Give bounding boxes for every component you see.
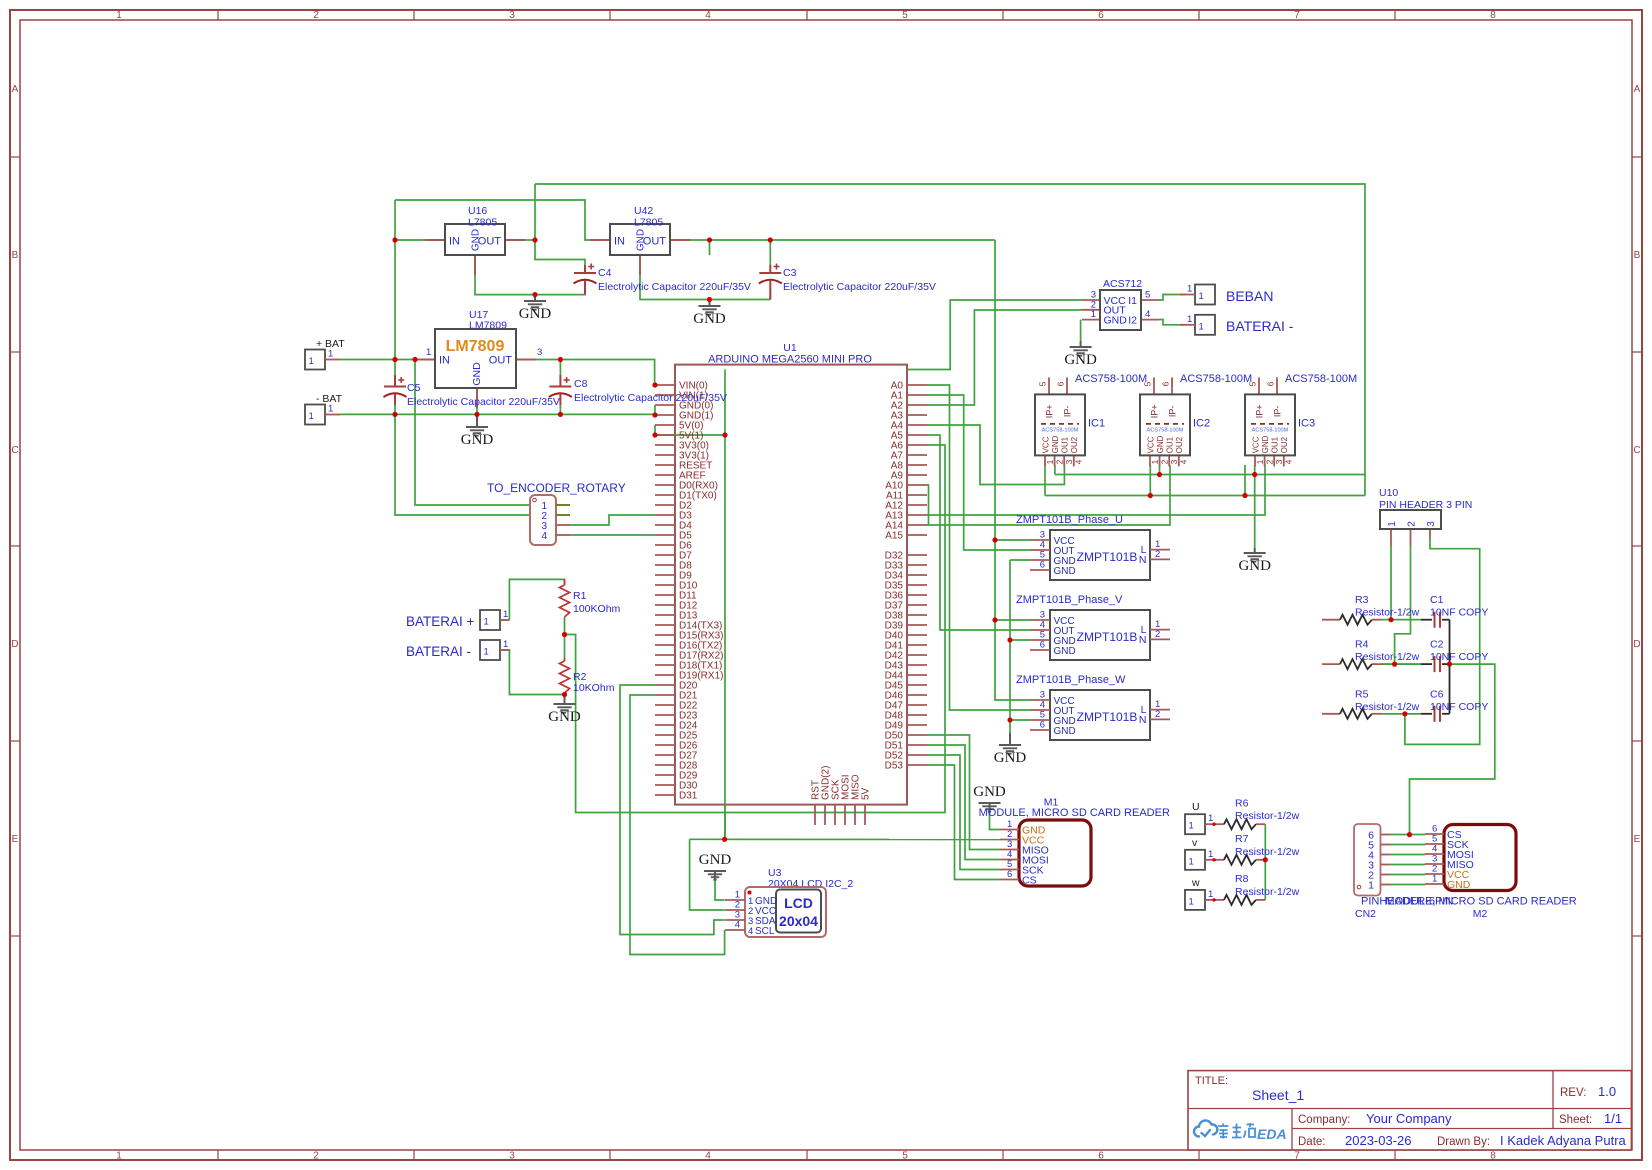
svg-text:3: 3 [1169, 459, 1179, 464]
svg-text:5V: 5V [861, 787, 872, 800]
svg-text:GND: GND [973, 784, 1006, 800]
svg-text:1: 1 [328, 404, 333, 415]
svg-text:4: 4 [705, 1151, 711, 1162]
svg-text:1: 1 [1387, 521, 1398, 527]
svg-text:C: C [1633, 445, 1640, 456]
svg-text:3: 3 [537, 347, 542, 358]
svg-text:GND: GND [1447, 879, 1471, 891]
svg-text:L7805: L7805 [634, 217, 663, 229]
svg-text:CS: CS [1022, 874, 1037, 886]
svg-text:6: 6 [1040, 640, 1045, 651]
svg-text:1: 1 [1189, 821, 1194, 832]
svg-text:5: 5 [902, 10, 908, 21]
svg-text:BATERAI -: BATERAI - [406, 644, 471, 659]
svg-text:ZMPT101B_Phase_V: ZMPT101B_Phase_V [1016, 594, 1123, 606]
svg-text:OU2: OU2 [1280, 436, 1289, 453]
svg-text:1: 1 [116, 1151, 122, 1162]
svg-text:IP-: IP- [1273, 406, 1283, 418]
svg-text:ACS758-100M: ACS758-100M [1075, 373, 1147, 385]
svg-text:TITLE:: TITLE: [1195, 1075, 1228, 1087]
svg-text:ACS758-100M: ACS758-100M [1285, 373, 1357, 385]
svg-text:D: D [1633, 639, 1640, 650]
svg-text:GND: GND [1064, 352, 1097, 368]
svg-text:GND: GND [699, 852, 732, 868]
svg-text:5: 5 [1248, 381, 1258, 386]
svg-text:LM7809: LM7809 [469, 320, 507, 332]
svg-text:1: 1 [1045, 459, 1055, 464]
svg-text:ZMPT101B: ZMPT101B [1077, 550, 1138, 564]
svg-text:GND: GND [548, 709, 581, 725]
svg-text:IN: IN [449, 236, 460, 248]
svg-text:GND: GND [1261, 435, 1270, 453]
svg-text:R3: R3 [1355, 594, 1369, 606]
svg-text:U10: U10 [1379, 487, 1398, 499]
svg-text:Date:: Date: [1298, 1136, 1326, 1148]
svg-text:10NF COPY: 10NF COPY [1430, 607, 1488, 619]
svg-text:2: 2 [1155, 629, 1160, 640]
svg-text:I1: I1 [1128, 295, 1137, 307]
svg-text:1: 1 [484, 617, 489, 628]
svg-text:1: 1 [328, 349, 333, 360]
svg-text:IP-: IP- [1063, 406, 1073, 418]
svg-text:6: 6 [1098, 1151, 1104, 1162]
svg-text:GND: GND [471, 229, 482, 251]
svg-text:1: 1 [1208, 849, 1213, 860]
svg-text:Electrolytic Capacitor 220uF/3: Electrolytic Capacitor 220uF/35V [574, 392, 727, 404]
svg-text:Resistor-1/2w: Resistor-1/2w [1355, 701, 1420, 713]
svg-text:ACS758-100M: ACS758-100M [1042, 427, 1079, 433]
svg-text:Resistor-1/2w: Resistor-1/2w [1235, 846, 1300, 858]
svg-text:TO_ENCODER_ROTARY: TO_ENCODER_ROTARY [487, 481, 626, 495]
svg-text:R8: R8 [1235, 873, 1249, 885]
svg-text:5: 5 [1145, 290, 1150, 301]
svg-text:6: 6 [1040, 720, 1045, 731]
svg-text:GND: GND [1238, 558, 1271, 574]
svg-text:IC2: IC2 [1193, 417, 1210, 429]
svg-text:R1: R1 [573, 590, 587, 602]
svg-text:10NF COPY: 10NF COPY [1430, 651, 1488, 663]
svg-text:6: 6 [1007, 869, 1012, 880]
svg-text:GND: GND [994, 750, 1027, 766]
svg-text:D31: D31 [679, 791, 698, 802]
svg-text:E: E [1634, 834, 1641, 845]
svg-text:4: 4 [541, 531, 547, 542]
svg-text:Resistor-1/2w: Resistor-1/2w [1355, 651, 1420, 663]
svg-text:2: 2 [1155, 549, 1160, 560]
svg-text:Resistor-1/2w: Resistor-1/2w [1235, 886, 1300, 898]
svg-text:1: 1 [1091, 309, 1096, 320]
svg-text:B: B [12, 250, 19, 261]
svg-text:1: 1 [1150, 459, 1160, 464]
svg-text:VCC: VCC [1146, 436, 1155, 453]
svg-text:3: 3 [509, 10, 515, 21]
svg-text:R4: R4 [1355, 639, 1369, 651]
svg-text:6: 6 [1161, 381, 1171, 386]
svg-text:10KOhm: 10KOhm [573, 682, 615, 694]
svg-text:GND: GND [1054, 566, 1076, 577]
svg-text:1: 1 [1208, 889, 1213, 900]
svg-text:Electrolytic Capacitor 220uF/3: Electrolytic Capacitor 220uF/35V [783, 281, 936, 293]
svg-text:GND: GND [1051, 435, 1060, 453]
svg-text:OU1: OU1 [1271, 436, 1280, 453]
svg-text:1: 1 [1187, 314, 1192, 325]
svg-text:A: A [1634, 84, 1641, 95]
svg-text:REV:: REV: [1560, 1087, 1586, 1099]
svg-text:4: 4 [1284, 459, 1294, 464]
svg-text:1: 1 [1189, 856, 1194, 867]
svg-text:1: 1 [1187, 284, 1192, 295]
svg-text:GND: GND [1054, 646, 1076, 657]
svg-text:OU2: OU2 [1070, 436, 1079, 453]
svg-text:CN2: CN2 [1355, 908, 1376, 920]
svg-text:N: N [1139, 714, 1147, 726]
svg-text:GND: GND [1054, 726, 1076, 737]
svg-text:GND: GND [1104, 314, 1128, 326]
svg-text:1: 1 [309, 411, 314, 422]
svg-text:IP+: IP+ [1045, 405, 1055, 419]
svg-text:N: N [1139, 554, 1147, 566]
svg-text:w: w [1191, 877, 1200, 889]
svg-text:U1: U1 [783, 342, 797, 354]
svg-text:6: 6 [1098, 10, 1104, 21]
svg-text:6: 6 [1266, 381, 1276, 386]
svg-text:N: N [1139, 634, 1147, 646]
svg-text:U42: U42 [634, 205, 653, 217]
svg-text:LM7809: LM7809 [446, 338, 505, 355]
svg-text:B: B [1634, 250, 1641, 261]
svg-text:C1: C1 [1430, 594, 1444, 606]
svg-text:1: 1 [1432, 874, 1437, 885]
svg-text:Resistor-1/2w: Resistor-1/2w [1355, 607, 1420, 619]
svg-text:Resistor-1/2w: Resistor-1/2w [1235, 810, 1300, 822]
svg-text:OUT: OUT [489, 355, 513, 367]
svg-text:MODULE, MICRO SD CARD READER: MODULE, MICRO SD CARD READER [979, 807, 1170, 819]
svg-text:1: 1 [1199, 321, 1204, 332]
svg-text:8: 8 [1490, 10, 1496, 21]
svg-text:2: 2 [1054, 459, 1064, 464]
svg-text:1: 1 [484, 647, 489, 658]
svg-text:E: E [12, 834, 19, 845]
svg-text:PINHEADER-6PIN: PINHEADER-6PIN [1361, 896, 1453, 908]
svg-text:5: 5 [902, 1151, 908, 1162]
svg-text:OU1: OU1 [1061, 436, 1070, 453]
svg-text:2: 2 [313, 10, 319, 21]
svg-text:OU2: OU2 [1175, 436, 1184, 453]
svg-text:3: 3 [1426, 521, 1437, 527]
svg-text:+ BAT: + BAT [316, 338, 345, 350]
svg-text:7: 7 [1294, 10, 1300, 21]
svg-text:8: 8 [1490, 1151, 1496, 1162]
svg-text:LCD: LCD [784, 895, 813, 911]
svg-text:VCC: VCC [1041, 436, 1050, 453]
svg-text:IN: IN [614, 236, 625, 248]
svg-text:1: 1 [1255, 459, 1265, 464]
svg-text:VCC: VCC [1251, 436, 1260, 453]
svg-text:1.0: 1.0 [1598, 1084, 1616, 1099]
svg-text:GND: GND [1156, 435, 1165, 453]
svg-text:GND: GND [636, 229, 647, 251]
svg-text:1: 1 [1208, 813, 1213, 824]
svg-text:4: 4 [705, 10, 711, 21]
svg-text:1/1: 1/1 [1604, 1111, 1622, 1126]
svg-text:I2: I2 [1128, 314, 1137, 326]
svg-text:5: 5 [1143, 381, 1153, 386]
svg-text:10NF COPY: 10NF COPY [1430, 701, 1488, 713]
svg-text:C2: C2 [1430, 639, 1444, 651]
svg-text:Drawn By:: Drawn By: [1437, 1136, 1490, 1148]
svg-text:2: 2 [1159, 459, 1169, 464]
svg-text:5: 5 [1038, 381, 1048, 386]
svg-text:4: 4 [1145, 309, 1150, 320]
svg-text:4: 4 [735, 920, 740, 931]
svg-text:D: D [11, 639, 18, 650]
svg-text:2: 2 [1155, 709, 1160, 720]
svg-text:6: 6 [1056, 381, 1066, 386]
svg-text:M2: M2 [1473, 908, 1488, 920]
svg-text:U: U [1192, 801, 1200, 813]
svg-text:100KOhm: 100KOhm [573, 603, 621, 615]
svg-text:7: 7 [1294, 1151, 1300, 1162]
svg-text:ZMPT101B: ZMPT101B [1077, 710, 1138, 724]
svg-text:v: v [1192, 837, 1198, 849]
svg-text:BEBAN: BEBAN [1226, 288, 1273, 304]
svg-text:4: 4 [1179, 459, 1189, 464]
svg-text:1: 1 [1368, 879, 1374, 891]
svg-text:C5: C5 [407, 382, 421, 394]
svg-text:1: 1 [1189, 896, 1194, 907]
svg-text:IP+: IP+ [1255, 405, 1265, 419]
svg-text:20x04: 20x04 [779, 913, 818, 929]
svg-text:1: 1 [426, 347, 431, 358]
svg-text:D53: D53 [885, 761, 904, 772]
svg-text:Your Company: Your Company [1366, 1111, 1452, 1126]
svg-text:U16: U16 [468, 205, 487, 217]
svg-text:IN: IN [439, 355, 450, 367]
svg-text:BATERAI +: BATERAI + [406, 614, 475, 629]
svg-text:ACS758-100M: ACS758-100M [1147, 427, 1184, 433]
svg-text:ACS758-100M: ACS758-100M [1252, 427, 1289, 433]
svg-text:2: 2 [313, 1151, 319, 1162]
svg-text:A: A [12, 84, 19, 95]
svg-text:1: 1 [309, 356, 314, 367]
svg-text:4: 4 [748, 926, 753, 937]
svg-text:I Kadek Adyana Putra: I Kadek Adyana Putra [1500, 1133, 1627, 1148]
svg-text:GND: GND [461, 432, 494, 448]
svg-text:ACS758-100M: ACS758-100M [1180, 373, 1252, 385]
svg-text:3: 3 [509, 1151, 515, 1162]
svg-text:1: 1 [503, 639, 508, 650]
svg-text:ZMPT101B_Phase_U: ZMPT101B_Phase_U [1016, 514, 1123, 526]
svg-text:BATERAI -: BATERAI - [1226, 318, 1294, 334]
svg-text:C: C [11, 445, 18, 456]
svg-text:- BAT: - BAT [316, 393, 343, 405]
svg-text:Electrolytic Capacitor 220uF/3: Electrolytic Capacitor 220uF/35V [598, 281, 751, 293]
svg-text:Sheet_1: Sheet_1 [1252, 1087, 1304, 1103]
svg-text:IC1: IC1 [1088, 417, 1105, 429]
svg-text:Electrolytic Capacitor 220uF/3: Electrolytic Capacitor 220uF/35V [407, 396, 560, 408]
svg-text:C3: C3 [783, 267, 797, 279]
svg-text:2: 2 [1264, 459, 1274, 464]
svg-text:6: 6 [1040, 560, 1045, 571]
svg-text:C6: C6 [1430, 688, 1444, 700]
svg-text:ACS712: ACS712 [1103, 278, 1142, 290]
svg-text:Company:: Company: [1298, 1114, 1350, 1126]
svg-text:2: 2 [1406, 521, 1417, 527]
svg-text:2023-03-26: 2023-03-26 [1345, 1133, 1412, 1148]
svg-text:IC3: IC3 [1298, 417, 1315, 429]
svg-text:C4: C4 [598, 267, 612, 279]
svg-text:EDA: EDA [1257, 1126, 1287, 1142]
svg-text:GND: GND [471, 362, 483, 386]
svg-text:GND: GND [693, 311, 726, 327]
svg-text:ZMPT101B_Phase_W: ZMPT101B_Phase_W [1016, 674, 1126, 686]
svg-text:1: 1 [1199, 291, 1204, 302]
svg-text:R5: R5 [1355, 688, 1369, 700]
svg-text:SCL: SCL [755, 926, 775, 937]
svg-text:OU1: OU1 [1166, 436, 1175, 453]
svg-text:C8: C8 [574, 378, 588, 390]
svg-text:ZMPT101B: ZMPT101B [1077, 630, 1138, 644]
svg-text:3: 3 [1274, 459, 1284, 464]
svg-text:R6: R6 [1235, 797, 1249, 809]
svg-text:3: 3 [1064, 459, 1074, 464]
svg-text:A15: A15 [885, 531, 903, 542]
svg-text:4: 4 [1074, 459, 1084, 464]
svg-text:IP+: IP+ [1150, 405, 1160, 419]
svg-text:1: 1 [503, 609, 508, 620]
svg-text:R7: R7 [1235, 833, 1249, 845]
svg-text:IP-: IP- [1168, 406, 1178, 418]
svg-text:GND: GND [519, 306, 552, 322]
svg-text:1: 1 [116, 10, 122, 21]
svg-text:Sheet:: Sheet: [1559, 1114, 1592, 1126]
svg-text:L7805: L7805 [468, 217, 497, 229]
